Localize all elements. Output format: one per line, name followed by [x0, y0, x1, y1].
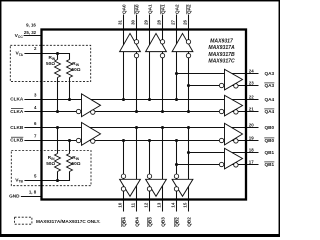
svg-text:24: 24 [249, 69, 254, 74]
svg-text:QA4: QA4 [265, 97, 275, 102]
svg-text:MAX9317B: MAX9317B [208, 52, 235, 58]
svg-text:21: 21 [249, 107, 254, 112]
svg-text:CLKA: CLKA [10, 97, 24, 102]
svg-text:QB0: QB0 [265, 138, 275, 143]
svg-text:MAX9317A/MAX9317C ONLY.: MAX9317A/MAX9317C ONLY. [36, 219, 101, 224]
svg-text:CLKB: CLKB [10, 125, 24, 130]
svg-text:29: 29 [144, 19, 149, 24]
svg-text:27: 27 [171, 19, 176, 24]
svg-text:QA2: QA2 [187, 4, 192, 14]
svg-text:50Ω: 50Ω [46, 161, 55, 166]
svg-text:QB2: QB2 [175, 217, 180, 227]
svg-text:QB4: QB4 [135, 217, 140, 227]
svg-text:QA3: QA3 [265, 71, 275, 76]
svg-text:18: 18 [249, 148, 254, 153]
svg-text:CLKA: CLKA [10, 109, 24, 114]
svg-text:QA1: QA1 [148, 4, 153, 14]
svg-text:17: 17 [249, 160, 254, 165]
svg-text:GND: GND [9, 194, 20, 199]
svg-text:MAX9317: MAX9317 [210, 39, 234, 45]
svg-text:QA2: QA2 [175, 4, 180, 14]
svg-text:QB0: QB0 [265, 125, 275, 130]
svg-text:QB2: QB2 [187, 217, 192, 227]
svg-text:50Ω: 50Ω [72, 161, 81, 166]
svg-text:9, 16: 9, 16 [26, 22, 36, 27]
svg-text:22: 22 [249, 95, 254, 100]
svg-text:28: 28 [157, 19, 162, 24]
svg-text:QA0: QA0 [135, 4, 140, 14]
svg-text:12: 12 [144, 202, 149, 207]
svg-text:31: 31 [118, 19, 123, 24]
svg-text:30: 30 [131, 19, 136, 24]
svg-text:QB1: QB1 [265, 150, 275, 155]
svg-text:26: 26 [183, 19, 188, 24]
svg-text:QB4: QB4 [122, 217, 127, 227]
svg-text:QA0: QA0 [122, 4, 127, 14]
svg-text:50Ω: 50Ω [72, 67, 81, 72]
svg-text:QB1: QB1 [265, 162, 275, 167]
svg-text:25, 32: 25, 32 [24, 30, 37, 35]
svg-text:QA3: QA3 [265, 83, 275, 88]
svg-text:MAX9317C: MAX9317C [208, 58, 235, 64]
svg-text:13: 13 [157, 202, 162, 207]
svg-text:19: 19 [249, 136, 254, 141]
svg-text:QB3: QB3 [161, 217, 166, 227]
svg-text:CLKB: CLKB [10, 138, 24, 143]
svg-text:QA4: QA4 [265, 109, 275, 114]
svg-text:50Ω: 50Ω [46, 61, 55, 66]
svg-text:QB3: QB3 [148, 217, 153, 227]
svg-text:15: 15 [183, 202, 188, 207]
svg-text:MAX9317A: MAX9317A [208, 45, 235, 51]
svg-text:10: 10 [118, 202, 123, 207]
svg-text:14: 14 [171, 202, 176, 207]
svg-text:11: 11 [131, 202, 136, 207]
svg-text:23: 23 [249, 81, 254, 86]
svg-text:1, 8: 1, 8 [29, 190, 37, 195]
svg-text:20: 20 [249, 123, 254, 128]
svg-text:QA1: QA1 [161, 4, 166, 14]
